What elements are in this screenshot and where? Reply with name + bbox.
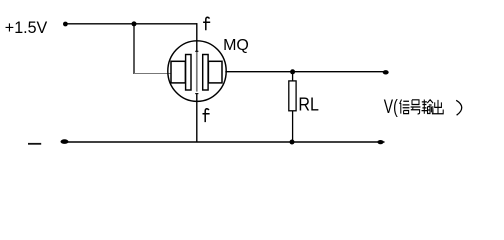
node C (RL top junction) bbox=[290, 69, 295, 74]
wire heater bottom lead f bbox=[196, 94, 198, 142]
label 号 (hand path) bbox=[411, 100, 421, 114]
node E (RL bottom junction) bbox=[290, 140, 295, 145]
sensor right electrode box bbox=[208, 61, 222, 83]
resistor RL bbox=[289, 81, 296, 111]
svg-text:+1.5V: +1.5V bbox=[5, 18, 48, 37]
wire RL top bbox=[292, 72, 294, 81]
heater filament (gray) bbox=[196, 51, 198, 91]
label ) closing paren bbox=[456, 100, 462, 115]
label f (bottom) bbox=[203, 109, 210, 122]
node A (left end of top rail) bbox=[63, 22, 68, 27]
label 输 (hand path) bbox=[422, 99, 434, 113]
wire sensor right lead to output bbox=[225, 71, 385, 73]
node G (bottom right end) bbox=[377, 140, 383, 144]
node B (junction on top rail) bbox=[132, 21, 137, 26]
svg-text:MQ: MQ bbox=[223, 37, 249, 54]
node F (bottom left end) bbox=[61, 139, 69, 144]
label f (top) bbox=[203, 17, 210, 30]
wire sensor left lead (gray) bbox=[134, 73, 171, 75]
label 信 (hand path) bbox=[400, 99, 410, 113]
wire RL bottom bbox=[292, 111, 294, 142]
minus terminal mark bbox=[28, 143, 41, 145]
wire top rail bbox=[65, 23, 197, 25]
svg-text:V(: V( bbox=[384, 97, 398, 118]
node D (output top right) bbox=[383, 70, 389, 74]
label 出 (hand path) bbox=[433, 100, 443, 114]
sensor left electrode plate bbox=[186, 55, 191, 91]
svg-text:RL: RL bbox=[298, 93, 319, 114]
sensor right electrode plate bbox=[203, 55, 208, 91]
wire from node B down to sensor left lead bbox=[133, 24, 135, 74]
wire bottom rail bbox=[65, 141, 385, 143]
wire heater top lead f bbox=[196, 23, 198, 51]
gas sensor MQ body bbox=[168, 41, 226, 102]
sensor left electrode box bbox=[171, 61, 185, 83]
